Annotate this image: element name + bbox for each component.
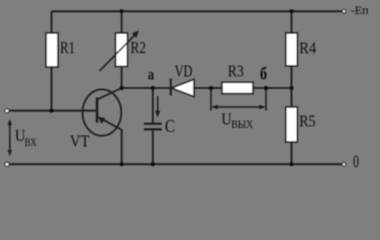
svg-text:R3: R3 bbox=[228, 62, 244, 81]
junction capacitor bottom rail bbox=[151, 162, 155, 166]
svg-text:0: 0 bbox=[353, 152, 359, 172]
svg-text:R2: R2 bbox=[130, 38, 146, 57]
svg-text:R5: R5 bbox=[299, 112, 315, 131]
junction R4 top rail bbox=[289, 9, 293, 13]
terminal 0 bbox=[342, 162, 346, 166]
wire R1 branch vertical bbox=[51, 11, 53, 110]
wire capacitor branch bbox=[152, 88, 154, 164]
terminal -Ep bbox=[342, 10, 346, 14]
svg-text:R1: R1 bbox=[60, 38, 75, 57]
capacitor C plates bbox=[144, 124, 162, 130]
svg-text:б: б bbox=[260, 64, 267, 84]
junction emitter bottom rail bbox=[120, 162, 124, 166]
junction Uvyx left tick bbox=[209, 86, 213, 90]
svg-text:ВХ: ВХ bbox=[25, 135, 37, 149]
transistor VT (PNP) bbox=[83, 88, 122, 136]
wire R4 branch vertical bbox=[291, 11, 293, 88]
wire input base bbox=[9, 110, 97, 112]
svg-text:а: а bbox=[148, 67, 154, 84]
node A (a) bbox=[151, 86, 155, 90]
diode VD bbox=[171, 79, 194, 97]
junction R5 bottom rail bbox=[289, 162, 293, 166]
terminal input top bbox=[5, 109, 9, 113]
wire bottom rail 0 bbox=[9, 163, 342, 165]
wire emitter branch vertical bbox=[121, 130, 123, 165]
Uvx measuring double arrow bbox=[8, 119, 12, 157]
terminal input bottom bbox=[5, 162, 9, 166]
svg-text:ВЫХ: ВЫХ bbox=[231, 117, 253, 131]
resistor R2 (variable) bbox=[116, 33, 128, 67]
resistor R1 bbox=[46, 33, 58, 67]
R2 variable arrow bbox=[100, 31, 140, 71]
wire collector rail (node a to node b) bbox=[122, 87, 292, 89]
node B (b) bbox=[264, 86, 268, 90]
svg-text:C: C bbox=[165, 116, 175, 136]
junction R2 top rail bbox=[120, 9, 124, 13]
junction collector / R2 bbox=[120, 86, 124, 90]
resistor R3 bbox=[222, 82, 253, 93]
wire R2 branch vertical bbox=[121, 11, 123, 88]
Uvyx measuring ticks and double arrow bbox=[211, 88, 266, 111]
wire R5 branch vertical bbox=[291, 88, 293, 164]
current arrow at capacitor branch bbox=[155, 96, 160, 118]
svg-text:VD: VD bbox=[175, 62, 193, 81]
resistor R5 bbox=[286, 107, 298, 142]
junction R1 base wire bbox=[49, 109, 53, 113]
svg-text:R4: R4 bbox=[299, 38, 317, 57]
svg-text:VT: VT bbox=[70, 132, 90, 151]
wire top rail bbox=[52, 10, 342, 12]
junction R4/R5 bbox=[289, 86, 293, 90]
svg-text:-Еп: -Еп bbox=[351, 4, 369, 17]
resistor R4 bbox=[286, 33, 298, 66]
svg-text:U: U bbox=[221, 110, 231, 129]
